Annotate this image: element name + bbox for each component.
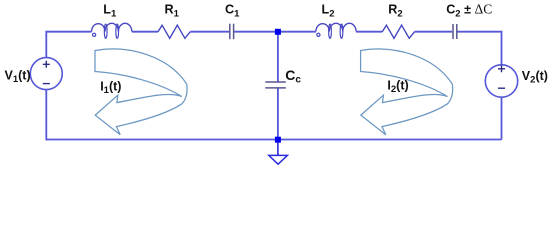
svg-text:V1(t): V1(t) (5, 68, 31, 85)
svg-text:R2: R2 (388, 3, 402, 20)
svg-text:Cc: Cc (285, 67, 301, 86)
capacitor Cc (265, 82, 286, 88)
resistor R2 (382, 25, 414, 38)
ground (269, 155, 288, 164)
inductor L1 (92, 23, 132, 38)
wire: Cc vertical lower (277, 88, 279, 137)
wire: right vertical top (corner to V2) (501, 31, 503, 65)
resistor R1 (158, 25, 190, 38)
svg-text:C1: C1 (225, 3, 240, 20)
svg-text:L1: L1 (103, 3, 117, 20)
loop current arrow I2 (361, 49, 453, 135)
svg-text:I1(t): I1(t) (100, 79, 121, 96)
svg-text:C2 ± ΔC: C2 ± ΔC (446, 2, 492, 20)
voltage source V1 (30, 58, 62, 90)
capacitor C2 (453, 24, 457, 39)
svg-text:R1: R1 (165, 3, 180, 20)
voltage source V2 (485, 65, 517, 97)
loop current arrow I1 (95, 49, 187, 135)
wire: R1 to C1 (190, 31, 229, 33)
svg-text:V2(t): V2(t) (522, 69, 548, 86)
svg-text:L2: L2 (322, 3, 335, 20)
capacitor C1 (230, 24, 234, 40)
wire: ground stub (277, 142, 279, 155)
wire: left vertical bottom (V1 to bottom rail) (45, 90, 47, 141)
svg-text:I2(t): I2(t) (387, 79, 408, 96)
wire: Cc vertical upper (277, 34, 279, 82)
wire: C2 to right corner (458, 31, 502, 33)
wire: bottom rail (46, 139, 501, 141)
wire: top rail left segment V1 to L1 (46, 31, 91, 33)
wire: L2 to R2 (356, 31, 382, 33)
wire: R2 to C2 (415, 31, 453, 33)
node A (top junction) (275, 29, 281, 35)
wire: L1 to R1 (132, 31, 158, 33)
wire: C1 to node A (234, 31, 278, 33)
node B (bottom junction) (275, 137, 281, 143)
inductor L2 (316, 23, 356, 38)
wire: left vertical top (corner to V1) (45, 31, 47, 58)
wire: right vertical bottom (V2 to bottom rail) (501, 97, 503, 139)
wire: node A to L2 (278, 31, 316, 33)
